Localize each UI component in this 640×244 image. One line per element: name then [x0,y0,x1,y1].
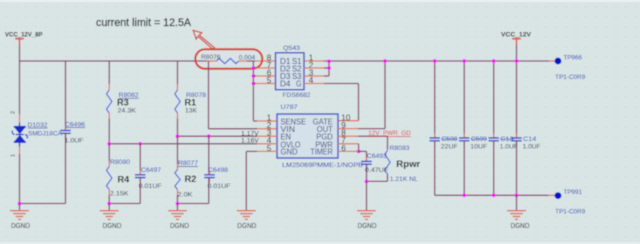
svg-text:R2: R2 [185,174,197,184]
svg-text:2.0K: 2.0K [178,192,194,199]
svg-text:VCC_12V_8P: VCC_12V_8P [5,32,43,39]
svg-text:24.3K: 24.3K [118,107,137,114]
svg-text:C6493: C6493 [367,153,387,160]
svg-text:C14: C14 [523,136,536,143]
svg-text:G: G [296,80,302,89]
svg-text:TP1-C0R9: TP1-C0R9 [555,208,585,215]
svg-text:C6496: C6496 [65,121,85,128]
svg-text:C599: C599 [471,136,487,143]
svg-text:2: 2 [11,111,17,114]
svg-text:LM25069PMME-1/NOPB: LM25069PMME-1/NOPB [282,162,363,169]
svg-text:TIMER: TIMER [310,147,333,157]
svg-text:Q543: Q543 [283,45,300,52]
svg-text:0.004: 0.004 [239,54,256,61]
svg-text:13K: 13K [185,107,198,114]
svg-text:22UF: 22UF [441,144,458,151]
svg-text:1.21K NL: 1.21K NL [390,176,418,183]
svg-text:C13: C13 [500,136,513,143]
svg-text:2.15K: 2.15K [110,191,129,198]
svg-text:5: 5 [267,76,272,85]
svg-text:DGND: DGND [511,223,530,230]
svg-text:VCC_12V: VCC_12V [501,32,531,39]
svg-text:R8083: R8083 [390,145,410,152]
svg-text:0.01UF: 0.01UF [139,183,162,190]
svg-text:DGND: DGND [11,223,30,230]
svg-text:R8080: R8080 [110,159,130,166]
svg-text:C6497: C6497 [141,167,161,174]
svg-text:DGND: DGND [237,223,256,230]
svg-text:TP991: TP991 [564,189,583,196]
svg-text:SMDJ18CA: SMDJ18CA [28,131,63,138]
svg-text:1: 1 [11,154,17,157]
svg-text:TP966: TP966 [564,55,583,62]
svg-text:C6498: C6498 [208,167,228,174]
svg-text:R4: R4 [118,175,131,185]
svg-text:C598: C598 [441,136,457,143]
svg-text:1.0UF: 1.0UF [523,144,541,151]
svg-text:12V_PWR_GD: 12V_PWR_GD [368,130,411,137]
svg-text:R3: R3 [117,98,129,108]
svg-text:R1: R1 [185,98,197,108]
svg-text:1.17V: 1.17V [241,131,259,137]
svg-text:Rpwr: Rpwr [396,159,420,169]
svg-text:0.01UF: 0.01UF [208,183,231,190]
svg-text:GND: GND [281,147,298,157]
svg-text:D1032: D1032 [28,122,48,129]
svg-text:DGND: DGND [358,223,377,230]
svg-text:1.0UF: 1.0UF [500,144,518,151]
svg-text:1.0UF: 1.0UF [65,137,84,144]
svg-text:FDS6682: FDS6682 [283,92,311,99]
svg-text:TP1-C0R9: TP1-C0R9 [555,74,585,81]
svg-text:current limit = 12.5A: current limit = 12.5A [96,17,192,29]
svg-text:0.47UF: 0.47UF [365,167,388,174]
svg-text:D4: D4 [280,80,291,89]
svg-text:DGND: DGND [103,223,122,230]
svg-text:DGND: DGND [170,223,189,230]
svg-text:R8077: R8077 [178,160,198,167]
svg-text:10UF: 10UF [470,144,487,151]
svg-text:U787: U787 [281,104,298,111]
svg-text:R8076: R8076 [201,54,221,61]
